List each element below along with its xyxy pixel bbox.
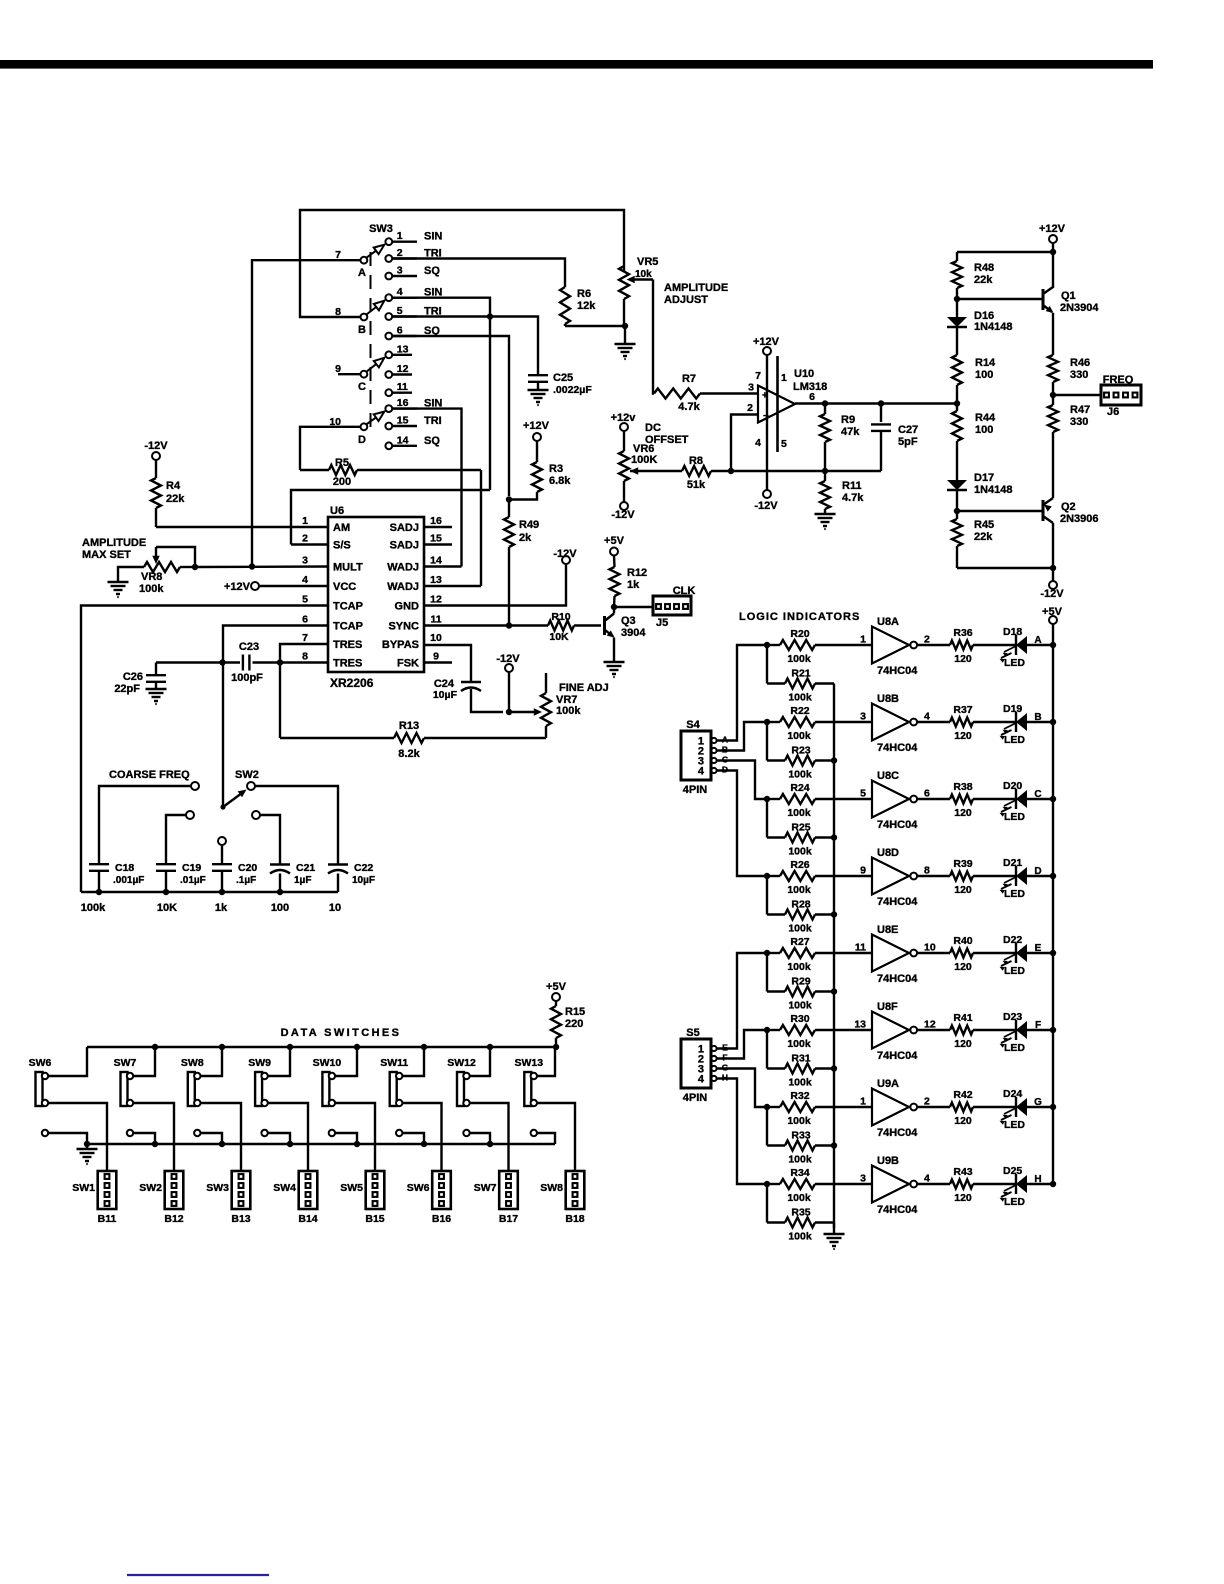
R49 label xyxy=(519,519,539,544)
svg-text:C21: C21 xyxy=(296,862,315,874)
svg-text:13: 13 xyxy=(854,1019,866,1031)
R37 label xyxy=(953,704,972,742)
potentiometer VR7 FINE ADJ xyxy=(509,673,551,738)
wire R5 line to WADJ pin 13 riser xyxy=(480,470,482,586)
U8E label xyxy=(877,924,918,985)
SW9 pole contact to ground bus xyxy=(261,1130,290,1144)
R4 label xyxy=(166,480,185,505)
R43 label xyxy=(953,1166,972,1204)
svg-text:47k: 47k xyxy=(841,426,860,438)
svg-text:74HC04: 74HC04 xyxy=(877,665,918,677)
resistor R45 xyxy=(952,511,962,568)
svg-text:FINE ADJ: FINE ADJ xyxy=(559,682,609,694)
resistor R26 input xyxy=(767,871,872,881)
resistor R3 xyxy=(509,441,542,500)
DC OFFSET label xyxy=(645,422,689,446)
svg-text:S/S: S/S xyxy=(333,540,351,552)
Q2 label xyxy=(1060,501,1099,525)
svg-text:U9B: U9B xyxy=(877,1155,899,1167)
svg-text:C25: C25 xyxy=(553,372,573,384)
op-amp offset pins 1/5 bar xyxy=(776,356,779,452)
svg-text:200: 200 xyxy=(333,476,351,488)
wire SW3 common D to R5 xyxy=(300,427,361,470)
wire SW13 bottom contact to connector B18 xyxy=(537,1103,575,1171)
resistor R21 to bus xyxy=(767,645,834,689)
svg-text:SW10: SW10 xyxy=(313,1057,342,1069)
svg-text:100: 100 xyxy=(271,902,289,914)
svg-text:2: 2 xyxy=(924,634,930,646)
wire GND pin 12 to -12V xyxy=(424,564,566,606)
B15 reference label xyxy=(365,1213,384,1225)
svg-text:D21: D21 xyxy=(1003,857,1022,869)
svg-text:R42: R42 xyxy=(953,1089,972,1101)
svg-text:R8: R8 xyxy=(689,455,703,467)
U8C pin numbers xyxy=(860,788,930,800)
R32 label xyxy=(787,1090,811,1127)
svg-text:S5: S5 xyxy=(686,1027,699,1039)
svg-text:4: 4 xyxy=(698,1074,705,1086)
R21 label xyxy=(788,668,812,704)
connector B16 xyxy=(432,1171,451,1209)
junction left rail / op-amp output xyxy=(954,400,960,406)
ground below C25 xyxy=(528,390,549,405)
connector B14 xyxy=(299,1171,318,1209)
svg-text:R48: R48 xyxy=(974,262,994,274)
svg-text:R9: R9 xyxy=(841,414,855,426)
svg-text:SW6: SW6 xyxy=(407,1182,430,1194)
wire SW9 bottom contact to connector B14 xyxy=(268,1103,308,1171)
+5V terminal LED rail xyxy=(1042,606,1063,624)
svg-text:1: 1 xyxy=(302,515,308,527)
svg-text:22k: 22k xyxy=(166,493,185,505)
svg-text:SW7: SW7 xyxy=(114,1057,137,1069)
+12V terminal above R3 xyxy=(523,420,550,441)
svg-text:U6: U6 xyxy=(330,505,344,517)
svg-text:R38: R38 xyxy=(953,781,972,793)
junction VR8 wiper tie xyxy=(192,564,198,570)
svg-text:R49: R49 xyxy=(519,519,539,531)
ground below Q3 xyxy=(604,662,625,677)
wire TRES pin 8 to C23 xyxy=(280,661,328,663)
svg-text:15: 15 xyxy=(397,415,409,427)
svg-text:74HC04: 74HC04 xyxy=(877,896,918,908)
svg-text:1: 1 xyxy=(860,634,866,646)
junction LED rail A xyxy=(1050,642,1056,648)
svg-text:R3: R3 xyxy=(549,463,563,475)
svg-text:+12V: +12V xyxy=(523,420,550,432)
svg-text:SW11: SW11 xyxy=(380,1057,408,1069)
svg-text:9: 9 xyxy=(433,651,439,663)
VR5 label xyxy=(635,256,658,280)
svg-text:LED: LED xyxy=(1004,657,1025,669)
svg-text:LM318: LM318 xyxy=(793,381,827,393)
svg-text:120: 120 xyxy=(954,1192,972,1204)
svg-text:51k: 51k xyxy=(687,479,706,491)
svg-text:R22: R22 xyxy=(790,705,809,717)
U9B pin numbers xyxy=(860,1173,930,1185)
footer link underline xyxy=(127,1574,269,1576)
wire +12V to rails xyxy=(957,243,1053,288)
resistor R27 input xyxy=(767,948,872,958)
junction output / R9 xyxy=(822,400,828,406)
svg-text:4.7k: 4.7k xyxy=(842,492,864,504)
svg-text:LED: LED xyxy=(1004,1196,1025,1208)
svg-text:120: 120 xyxy=(954,653,972,665)
svg-text:C26: C26 xyxy=(123,671,143,683)
junction row A xyxy=(764,642,770,648)
resistor R10 xyxy=(548,621,601,631)
svg-text:100: 100 xyxy=(975,424,993,436)
svg-text:74HC04: 74HC04 xyxy=(877,742,918,754)
slide switch SW11 xyxy=(390,1072,403,1106)
wire op-amp output to right section xyxy=(795,402,958,404)
svg-text:Q2: Q2 xyxy=(1061,501,1076,513)
svg-text:R23: R23 xyxy=(791,745,810,757)
LED D21 xyxy=(1000,866,1054,894)
SW13 label xyxy=(515,1057,544,1069)
transistor Q3 2N3904 xyxy=(605,607,615,662)
R23 label xyxy=(788,745,812,781)
svg-text:SW2: SW2 xyxy=(235,769,259,781)
wire contact 16 SIN-D down to WADJ pin 14 xyxy=(392,409,461,567)
resistor R36 output xyxy=(917,641,1016,650)
wire bottom rail to -12V xyxy=(957,523,1053,581)
svg-text:12: 12 xyxy=(397,363,409,375)
svg-text:6: 6 xyxy=(397,325,403,337)
svg-text:BYPAS: BYPAS xyxy=(382,639,419,651)
connector S4 4PIN xyxy=(681,719,728,796)
junction SYNC / R49 node xyxy=(506,622,512,628)
resistor R47 xyxy=(1048,395,1058,498)
svg-text:G: G xyxy=(1034,1097,1042,1108)
R31 label xyxy=(788,1053,812,1089)
SW8 pole contact to ground bus xyxy=(194,1130,222,1144)
svg-text:+: + xyxy=(762,391,768,402)
svg-text:100k: 100k xyxy=(787,1038,811,1050)
svg-text:14: 14 xyxy=(430,555,442,567)
wire SW3 common B up to top rail to VR5 xyxy=(300,210,624,317)
svg-text:4: 4 xyxy=(924,711,930,723)
wire contact 5 TRI-B to C25 xyxy=(392,317,538,376)
svg-text:R20: R20 xyxy=(790,628,809,640)
capacitor C24 xyxy=(461,679,503,712)
wire SW10 top contact to +5V bus xyxy=(335,1047,357,1076)
VR6 label xyxy=(631,443,657,466)
svg-text:10: 10 xyxy=(430,632,442,644)
junction bus xyxy=(831,988,837,994)
wire SYNC pin 11 to R10 xyxy=(424,624,548,626)
D18 label xyxy=(1003,626,1025,669)
resistor R48 xyxy=(952,252,962,299)
ground below VR8 xyxy=(108,582,129,597)
transistor Q1 2N3904 xyxy=(957,287,1054,313)
svg-text:120: 120 xyxy=(954,1115,972,1127)
R11 label xyxy=(842,480,864,504)
svg-text:U8A: U8A xyxy=(877,616,899,628)
diode D17 1N4148 xyxy=(947,480,967,511)
J5 reference label xyxy=(656,617,668,629)
resistor R28 to bus xyxy=(767,876,834,920)
svg-text:10k: 10k xyxy=(635,269,652,280)
junction Q2 collector / -12V xyxy=(1050,565,1056,571)
inverter U9A 74HC04 xyxy=(872,1089,917,1126)
VR8 label xyxy=(139,571,164,595)
J6 reference label xyxy=(1107,406,1119,418)
resistor R7 xyxy=(654,389,758,399)
svg-text:D24: D24 xyxy=(1003,1088,1022,1100)
svg-text:2N3904: 2N3904 xyxy=(1060,302,1099,314)
resistor R41 output xyxy=(917,1026,1016,1035)
svg-text:SYNC: SYNC xyxy=(388,621,419,633)
wire SW6 bottom contact to connector B11 xyxy=(48,1103,107,1171)
svg-text:U8B: U8B xyxy=(877,693,899,705)
wire VR8 left to ground xyxy=(118,567,144,582)
junction C23 right / TRES pins xyxy=(277,659,283,665)
LOGIC INDICATORS label xyxy=(739,611,860,623)
D25 label xyxy=(1003,1165,1025,1208)
+5V terminal above R12 xyxy=(604,535,625,556)
wire SW7 bottom contact to connector B12 xyxy=(133,1103,174,1171)
inverter U8D 74HC04 xyxy=(872,858,917,895)
R30 label xyxy=(787,1013,811,1050)
junction row F xyxy=(764,1027,770,1033)
svg-text:6.8k: 6.8k xyxy=(549,475,571,487)
svg-text:2: 2 xyxy=(924,1096,930,1108)
svg-text:120: 120 xyxy=(954,1038,972,1050)
svg-text:SW2: SW2 xyxy=(139,1182,162,1194)
U6 right pin names xyxy=(382,522,419,670)
connector J5 CLK xyxy=(653,596,691,615)
R39 label xyxy=(953,858,972,896)
-12V terminal above VR7 node xyxy=(496,653,520,712)
SW6 pole contact to ground bus xyxy=(42,1130,87,1144)
svg-text:120: 120 xyxy=(954,884,972,896)
U9B label xyxy=(877,1155,918,1216)
R40 label xyxy=(953,935,972,973)
svg-text:12k: 12k xyxy=(577,300,596,312)
U9A pin numbers xyxy=(860,1096,930,1108)
resistor R42 output xyxy=(917,1103,1016,1112)
svg-text:SW13: SW13 xyxy=(515,1057,544,1069)
svg-text:3: 3 xyxy=(748,382,754,394)
svg-text:Q3: Q3 xyxy=(621,615,636,627)
R8 label xyxy=(687,455,706,491)
resistor R32 input xyxy=(767,1102,872,1112)
svg-text:SW8: SW8 xyxy=(181,1057,204,1069)
svg-text:U10: U10 xyxy=(794,368,814,380)
wire SW13 top contact to +5V bus xyxy=(537,1047,555,1076)
svg-text:R44: R44 xyxy=(975,412,996,424)
R7 label xyxy=(678,373,700,413)
svg-text:100k: 100k xyxy=(787,1115,811,1127)
svg-text:R4: R4 xyxy=(166,480,181,492)
R47 label xyxy=(1070,404,1090,428)
wire BYPAS pin 10 to C24 xyxy=(424,645,471,679)
junction MULT line / SW3-A common xyxy=(249,563,255,569)
svg-text:+5V: +5V xyxy=(546,981,567,993)
junction row E xyxy=(764,950,770,956)
svg-text:1µF: 1µF xyxy=(294,875,311,886)
svg-text:-12V: -12V xyxy=(553,548,577,560)
LED D24 xyxy=(1000,1097,1054,1125)
svg-text:FSK: FSK xyxy=(397,658,419,670)
junction D17 / R45 / Q2 base xyxy=(954,508,960,514)
svg-text:-12V: -12V xyxy=(144,440,168,452)
junction R48 / D16 / Q1 base xyxy=(954,296,960,302)
svg-text:F: F xyxy=(1035,1020,1041,1031)
svg-text:−: − xyxy=(763,411,769,422)
svg-text:4PIN: 4PIN xyxy=(683,1092,708,1104)
R42 label xyxy=(953,1089,972,1127)
SW13 pole contact to ground bus xyxy=(531,1130,555,1144)
C19 label xyxy=(180,862,206,886)
net label H xyxy=(1034,1174,1041,1185)
svg-text:B18: B18 xyxy=(565,1213,584,1225)
svg-text:B: B xyxy=(358,324,366,336)
potentiometer VR8 xyxy=(144,547,195,572)
svg-text:13: 13 xyxy=(430,574,442,586)
inverter U8B 74HC04 xyxy=(872,704,917,741)
resistor R15 xyxy=(551,1001,561,1047)
U8D pin numbers xyxy=(860,865,930,877)
svg-text:3: 3 xyxy=(302,555,308,567)
R15 label xyxy=(565,1006,585,1030)
svg-text:B14: B14 xyxy=(298,1213,317,1225)
svg-text:Q1: Q1 xyxy=(1061,290,1076,302)
wire to CLK connector xyxy=(614,606,653,608)
svg-text:10K: 10K xyxy=(549,631,569,643)
data switch top bus xyxy=(87,1044,559,1050)
wire C26 to C23 node xyxy=(156,663,223,676)
resistor R25 to bus xyxy=(767,799,834,843)
svg-text:1: 1 xyxy=(781,372,787,384)
svg-text:8: 8 xyxy=(924,865,930,877)
C20 label xyxy=(236,862,257,886)
SW12 label xyxy=(447,1057,476,1069)
-12V terminal at GND pin 12 xyxy=(553,548,577,564)
svg-text:B13: B13 xyxy=(231,1213,250,1225)
svg-text:AMPLITUDE: AMPLITUDE xyxy=(82,537,146,549)
junction bus xyxy=(831,911,837,917)
svg-text:E: E xyxy=(1035,943,1042,954)
R28 label xyxy=(788,899,812,935)
switch SW3 section A (contacts 1 SIN,2 TRI,3 SQ, common 7) xyxy=(335,230,442,279)
svg-text:100k: 100k xyxy=(788,1000,812,1012)
svg-text:74HC04: 74HC04 xyxy=(877,1127,918,1139)
svg-text:22k: 22k xyxy=(974,274,993,286)
diode D16 1N4148 xyxy=(947,299,967,355)
svg-text:220: 220 xyxy=(565,1018,583,1030)
B17 reference label xyxy=(499,1213,518,1225)
R44 label xyxy=(975,412,996,436)
svg-text:B: B xyxy=(1034,712,1041,723)
svg-text:D: D xyxy=(358,434,366,446)
R48 label xyxy=(974,262,994,286)
net label E xyxy=(1035,943,1042,954)
svg-text:VR8: VR8 xyxy=(141,571,162,583)
capacitor C25 xyxy=(528,375,548,389)
wire SW10 bottom contact to connector B15 xyxy=(335,1103,375,1171)
data switch ground bus xyxy=(84,1141,555,1147)
svg-text:.001µF: .001µF xyxy=(113,875,144,886)
DATA SWITCHES label xyxy=(281,1027,402,1039)
connector B12 xyxy=(165,1171,184,1209)
slide switch SW9 xyxy=(255,1072,268,1106)
svg-text:100: 100 xyxy=(975,369,993,381)
svg-text:R37: R37 xyxy=(953,704,972,716)
svg-text:R46: R46 xyxy=(1070,357,1090,369)
svg-text:120: 120 xyxy=(954,807,972,819)
svg-text:22pF: 22pF xyxy=(114,683,140,695)
LED D19 xyxy=(1000,712,1054,740)
junction LED rail E xyxy=(1050,950,1056,956)
svg-text:10µF: 10µF xyxy=(352,875,375,886)
svg-text:R30: R30 xyxy=(790,1013,809,1025)
svg-text:R25: R25 xyxy=(791,822,810,834)
connector S5 4PIN xyxy=(681,1027,729,1104)
svg-text:C: C xyxy=(1034,789,1041,800)
svg-text:.01µF: .01µF xyxy=(180,875,206,886)
inverter U8F 74HC04 xyxy=(872,1012,917,1049)
svg-text:-12V: -12V xyxy=(611,509,635,521)
svg-text:330: 330 xyxy=(1070,369,1088,381)
D23 label xyxy=(1003,1011,1025,1054)
R24 label xyxy=(787,782,811,819)
wire SW9 top contact to +5V bus xyxy=(268,1047,290,1076)
wire SW2 contact to C19 xyxy=(166,815,186,865)
net label G xyxy=(1034,1097,1042,1108)
inverter U8E 74HC04 xyxy=(872,935,917,972)
svg-text:R41: R41 xyxy=(953,1012,972,1024)
wire SW11 bottom contact to connector B16 xyxy=(402,1103,441,1171)
svg-text:100k: 100k xyxy=(787,884,811,896)
resistor R46 xyxy=(1048,313,1058,395)
wire feedback line to C27 bottom xyxy=(731,470,881,472)
svg-text:R36: R36 xyxy=(953,627,972,639)
resistor R39 output xyxy=(917,872,1016,881)
resistor R6 xyxy=(560,287,625,326)
resistor R4 xyxy=(151,460,161,527)
svg-text:100k: 100k xyxy=(788,692,812,704)
svg-text:SQ: SQ xyxy=(424,435,440,447)
svg-text:10: 10 xyxy=(924,942,936,954)
C25 label xyxy=(553,372,592,396)
junction R3 / SQ net xyxy=(506,496,512,502)
capacitor C18 xyxy=(89,864,109,892)
inverter U8A 74HC04 xyxy=(872,627,917,664)
svg-text:J6: J6 xyxy=(1107,406,1119,418)
capacitor C20 xyxy=(212,864,232,892)
svg-text:3904: 3904 xyxy=(621,627,646,639)
SW11 label xyxy=(380,1057,408,1069)
svg-text:100k: 100k xyxy=(788,1231,812,1243)
junction VR5 bottom xyxy=(622,323,628,329)
svg-text:LED: LED xyxy=(1004,1119,1025,1131)
resistor R49 xyxy=(504,500,514,626)
junction +12V rail xyxy=(1050,249,1056,255)
+12V terminal top right xyxy=(1039,223,1066,243)
R10 label xyxy=(549,611,570,643)
R12 label xyxy=(627,567,647,591)
potentiometer VR5 xyxy=(619,266,653,326)
capacitor C22 xyxy=(328,865,348,893)
connector label SW5 xyxy=(340,1182,363,1194)
switch SW3 section B (contacts 4 SIN,5 TRI,6 SQ, common 8) xyxy=(335,286,442,339)
junction bus xyxy=(831,834,837,840)
svg-text:8.2k: 8.2k xyxy=(398,748,420,760)
svg-text:D22: D22 xyxy=(1003,934,1022,946)
resistor R6 label xyxy=(577,288,596,312)
